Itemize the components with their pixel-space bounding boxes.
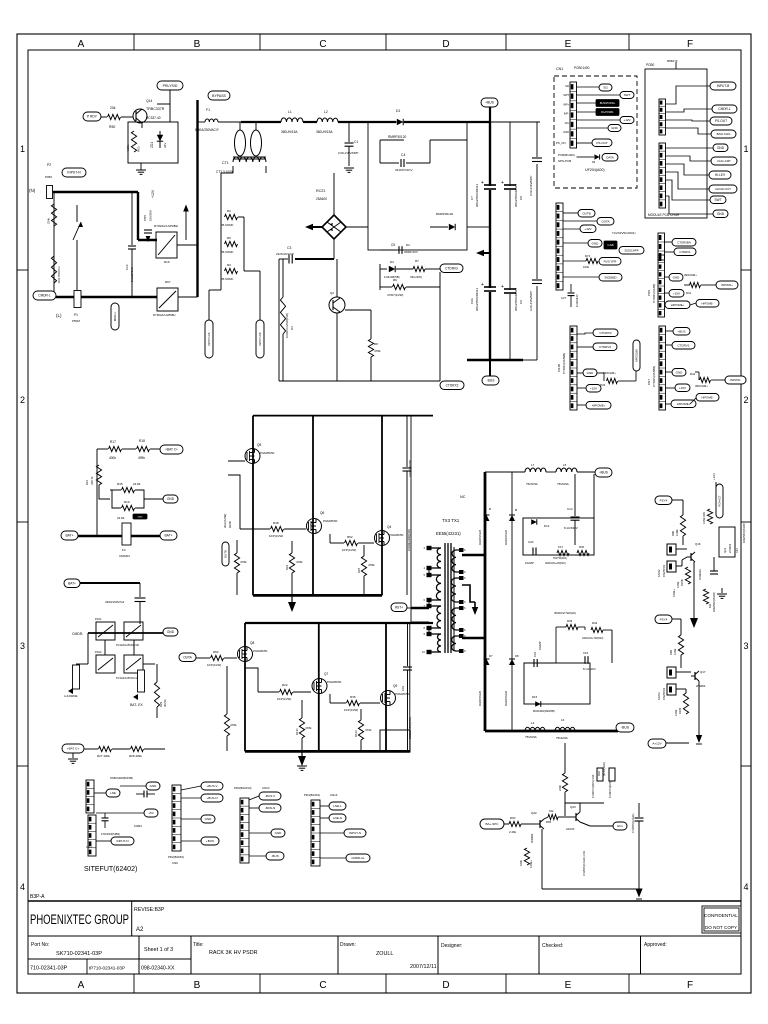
svg-text:2N3904A: 2N3904A xyxy=(698,569,702,580)
svg-text:NC: NC xyxy=(460,495,466,499)
diode D2 xyxy=(467,226,476,228)
svg-text:45.9OMh: 45.9OMh xyxy=(221,250,234,254)
svg-text:4.99k+: 4.99k+ xyxy=(672,589,676,597)
transformer core xyxy=(444,543,446,653)
svg-text:478k: 478k xyxy=(374,349,381,353)
node GND xyxy=(588,240,602,248)
svg-text:L4: L4 xyxy=(531,721,535,725)
svg-text:4: 4 xyxy=(20,882,25,892)
svg-text:102MP: 102MP xyxy=(538,641,542,650)
svg-text:2007/12/11: 2007/12/11 xyxy=(410,964,437,970)
node INPCT-CA vertical xyxy=(205,320,213,358)
svg-text:F3: F3 xyxy=(122,548,126,552)
svg-text:SPS-PCB: SPS-PCB xyxy=(558,159,571,163)
svg-text:B: B xyxy=(515,508,517,512)
resistor R93 xyxy=(707,509,712,524)
svg-text:DATA: DATA xyxy=(606,155,614,159)
svg-text:D8: D8 xyxy=(515,654,519,658)
svg-text:OUTB: OUTB xyxy=(224,550,228,558)
resistor R33 xyxy=(358,720,363,740)
wire tap thick upper xyxy=(462,554,485,557)
wire bus horizontal to relay xyxy=(138,239,157,241)
svg-text:1: 1 xyxy=(743,144,748,154)
svg-text:478k: 478k xyxy=(305,726,312,730)
node INPCT-CB vertical xyxy=(256,320,264,358)
svg-text:SK710-02341-03P: SK710-02341-03P xyxy=(56,951,102,957)
svg-text:Q2: Q2 xyxy=(330,291,334,295)
resistor R60 xyxy=(509,821,521,826)
node +15V xyxy=(669,290,684,298)
svg-text:+: + xyxy=(501,180,504,186)
node GND xyxy=(271,829,285,837)
transistor Q4 xyxy=(375,531,390,546)
svg-text:INPWN-: INPWN- xyxy=(730,378,741,382)
svg-text:A2: A2 xyxy=(136,927,144,933)
relay RY2 xyxy=(124,655,143,673)
relay RY67 xyxy=(157,288,178,311)
svg-text:GND: GND xyxy=(205,817,213,821)
resistor R3 xyxy=(225,268,238,273)
node GND xyxy=(201,815,215,823)
relay RY16 xyxy=(156,232,177,258)
svg-text:R50: R50 xyxy=(109,125,115,129)
svg-text:478k: 478k xyxy=(296,560,303,564)
wire box bridge upper xyxy=(253,415,433,417)
svg-text:R9: R9 xyxy=(393,278,397,282)
resistor R74 xyxy=(586,258,598,263)
wire bus xyxy=(404,121,490,123)
svg-text:100KOhm/5W(R1B): 100KOhm/5W(R1B) xyxy=(285,313,289,338)
node CTDRV3 xyxy=(593,343,617,351)
svg-text:BAT+: BAT+ xyxy=(164,534,172,538)
resistor R28 xyxy=(131,746,144,751)
svg-text:3021k: 3021k xyxy=(163,699,167,707)
svg-text:A+12V: A+12V xyxy=(652,742,662,746)
capacitor C32 xyxy=(102,817,109,819)
svg-text:BAT- EX: BAT- EX xyxy=(130,703,143,707)
svg-text:R3: R3 xyxy=(227,263,231,267)
svg-text:47U/50V(0.3x11): 47U/50V(0.3x11) xyxy=(631,813,635,833)
node PS-OUT xyxy=(592,139,612,147)
svg-text:6P/CE1B0: 6P/CE1B0 xyxy=(635,349,639,362)
svg-text:EE55(42231): EE55(42231) xyxy=(436,531,461,536)
svg-text:D3: D3 xyxy=(390,260,394,264)
svg-text:BUS/PCWR+: BUS/PCWR+ xyxy=(600,101,616,105)
relay RY1 xyxy=(96,655,115,673)
node -BUS b xyxy=(266,852,284,860)
capacitor C4 xyxy=(380,162,399,164)
node CMDR-L right xyxy=(712,105,737,113)
node CTDRV3 xyxy=(440,264,463,273)
capacitor C12 xyxy=(574,480,576,516)
svg-text:C20: C20 xyxy=(528,540,534,544)
svg-text:Q8: Q8 xyxy=(250,641,254,645)
svg-text:B: B xyxy=(489,507,491,511)
svg-text:+BAT C+: +BAT C+ xyxy=(165,448,178,452)
svg-text:0.01U/1KV/MPP: 0.01U/1KV/MPP xyxy=(338,151,358,155)
inductor L4 xyxy=(525,727,545,731)
fuse P2 xyxy=(47,186,53,199)
svg-text:478k: 478k xyxy=(368,563,375,567)
node SWT xyxy=(620,92,634,99)
fuse F3 xyxy=(122,523,131,545)
wire bus N xyxy=(53,191,138,193)
capacitor C2 xyxy=(532,157,542,159)
svg-text:CN8: CN8 xyxy=(647,290,651,296)
node BYPASS xyxy=(208,91,230,100)
node PRLYSID xyxy=(157,81,183,90)
ground arrow xyxy=(635,889,642,898)
svg-text:CMDR-L: CMDR-L xyxy=(38,294,51,298)
svg-text:CMDR-: CMDR- xyxy=(72,632,83,636)
node CTDRX3 xyxy=(593,329,618,337)
wire tap thick lower xyxy=(462,637,485,640)
wire bus bottom out xyxy=(485,730,618,733)
svg-text:LNE-N: LNE-N xyxy=(333,816,342,820)
svg-text:CN13: CN13 xyxy=(330,793,338,797)
svg-text:C1: C1 xyxy=(354,140,358,144)
svg-text:RST+: RST+ xyxy=(395,605,403,609)
svg-text:4.99k+: 4.99k+ xyxy=(529,860,533,868)
svg-text:P0A08K50: P0A08K50 xyxy=(260,451,275,455)
resistor R37 xyxy=(557,550,569,555)
svg-text:24.8k: 24.8k xyxy=(133,482,141,486)
svg-text:8.33U/43V: 8.33U/43V xyxy=(575,294,579,307)
svg-text:45.9OMh: 45.9OMh xyxy=(221,223,234,227)
svg-text:+BUS: +BUS xyxy=(485,101,495,105)
diode D15 xyxy=(535,701,541,707)
svg-text:(N): (N) xyxy=(29,188,36,193)
svg-text:R133: R133 xyxy=(354,730,358,737)
svg-text:4.99k: 4.99k xyxy=(673,648,677,655)
wire bus battery xyxy=(78,535,160,538)
svg-text:PD4(B1334): PD4(B1334) xyxy=(304,793,320,797)
svg-text:GND: GND xyxy=(717,146,725,150)
svg-text:8.1U/630V: 8.1U/630V xyxy=(564,526,578,530)
svg-text:3S25CHPP: 3S25CHPP xyxy=(624,248,638,252)
wire xyxy=(141,123,143,128)
node HIP/OME+ xyxy=(665,301,690,309)
svg-text:SSBU/2R(B015B): SSBU/2R(B015B) xyxy=(110,776,133,780)
svg-text:SI2: SI2 xyxy=(565,84,569,88)
node LNE-L xyxy=(329,802,346,810)
wire primary entry lower xyxy=(411,621,429,623)
resistor R9B xyxy=(678,635,683,655)
svg-text:D12: D12 xyxy=(544,524,550,528)
svg-text:RMRP30120: RMRP30120 xyxy=(436,212,454,216)
inductor L7 xyxy=(525,468,546,472)
connector CN4 strip xyxy=(556,203,563,290)
relay RG1 xyxy=(96,622,115,640)
svg-text:BAT+: BAT+ xyxy=(65,534,73,538)
resistor R99 xyxy=(680,515,685,536)
node +15V xyxy=(586,385,601,393)
connector CN1 strip xyxy=(570,82,577,148)
svg-text:R74: R74 xyxy=(585,254,591,258)
resistor R45 xyxy=(122,487,135,492)
node -BUS out xyxy=(616,723,634,732)
svg-text:Q23: Q23 xyxy=(570,805,576,809)
fuse P1 xyxy=(74,291,81,308)
svg-text:098-02340-XX: 098-02340-XX xyxy=(141,966,175,972)
resistor R54 xyxy=(562,773,567,792)
svg-text:CN3: CN3 xyxy=(86,845,92,849)
resistor R30v xyxy=(224,714,229,736)
connector CN8 strip xyxy=(658,255,665,317)
svg-text:CN10: CN10 xyxy=(262,786,270,790)
node BAT+ right xyxy=(160,531,177,540)
svg-text:222K/1KV/CP: 222K/1KV/CP xyxy=(276,252,294,256)
svg-text:3300/100V/G4: 3300/100V/G4 xyxy=(105,600,125,604)
svg-text:RACK 3K HV PSDR: RACK 3K HV PSDR xyxy=(209,950,258,956)
svg-text:INPCT-CB: INPCT-CB xyxy=(258,332,262,345)
ground xyxy=(72,753,74,758)
capacitor C36 xyxy=(710,570,718,572)
svg-text:R9B: R9B xyxy=(669,650,673,655)
svg-text:+BUS: +BUS xyxy=(599,471,609,475)
node BA+-SPC xyxy=(480,819,504,829)
svg-text:CHG-CRT: CHG-CRT xyxy=(717,159,731,163)
wire box rectifier xyxy=(368,122,467,250)
svg-text:P101: P101 xyxy=(95,617,102,621)
svg-text:R60: R60 xyxy=(510,816,516,820)
resistor R19B xyxy=(685,567,690,584)
svg-text:CT1: CT1 xyxy=(222,161,229,165)
capacitor C1 xyxy=(348,122,350,142)
svg-text:QZ1: QZ1 xyxy=(723,547,727,553)
ground arrow xyxy=(301,751,303,757)
svg-text:R45: R45 xyxy=(117,482,123,486)
resistor R29 xyxy=(154,682,159,707)
svg-text:25A600: 25A600 xyxy=(316,197,327,201)
svg-text:1N4937S(024): 1N4937S(024) xyxy=(608,781,612,798)
svg-text:F: F xyxy=(687,980,693,991)
wire bus xyxy=(338,121,396,123)
wire box bridge lower xyxy=(245,622,433,624)
svg-text:CTDRV(61B8B): CTDRV(61B8B) xyxy=(652,366,656,387)
svg-text:PCB(B1400): PCB(B1400) xyxy=(558,153,575,157)
svg-text:INP-: INP- xyxy=(564,112,569,116)
svg-text:300K04//7W(022): 300K04//7W(022) xyxy=(554,611,576,615)
dashed box CN1 xyxy=(554,76,637,188)
svg-text:+15V: +15V xyxy=(679,386,686,390)
svg-text:478k: 478k xyxy=(240,560,247,564)
node 3S25CHPP xyxy=(619,247,644,255)
node DATA xyxy=(602,154,618,162)
svg-text:INPUT-N: INPUT-N xyxy=(349,831,361,835)
capacitor C30 xyxy=(135,597,146,599)
svg-text:PSY4: PSY4 xyxy=(660,498,668,502)
resistor R19 xyxy=(122,505,135,510)
svg-text:R16: R16 xyxy=(164,260,170,264)
svg-text:F1: F1 xyxy=(206,108,210,112)
node GND xyxy=(146,782,160,790)
wire xyxy=(346,226,368,228)
capacitor C9A xyxy=(484,286,496,288)
node CTDRV1 xyxy=(674,248,696,256)
svg-text:SWT: SWT xyxy=(624,93,631,97)
svg-text:680U/450V/R8313: 680U/450V/R8313 xyxy=(514,184,518,207)
svg-text:C15: C15 xyxy=(583,651,589,655)
svg-text:PD2(B1663): PD2(B1663) xyxy=(168,855,184,859)
node RI PCWR dark xyxy=(596,109,619,116)
svg-text:478k: 478k xyxy=(230,723,237,727)
inductor L6 xyxy=(555,727,575,731)
svg-text:4.99k: 4.99k xyxy=(676,581,680,588)
diode D12 xyxy=(531,519,537,525)
node +BUS xyxy=(481,98,498,107)
node +5V xyxy=(144,809,158,817)
svg-text:CN25P03: CN25P03 xyxy=(662,687,666,700)
svg-text:+15V: +15V xyxy=(590,386,597,390)
svg-text:CONFIDENTIAL: CONFIDENTIAL xyxy=(704,913,738,918)
node RUS VFR xyxy=(599,258,621,266)
svg-text:SWT: SWT xyxy=(714,198,721,202)
svg-text:CN9: CN9 xyxy=(172,861,178,865)
svg-text:P2: P2 xyxy=(47,163,51,167)
svg-text:-BUS-V: -BUS-V xyxy=(265,794,275,798)
wire xyxy=(541,829,543,889)
node CHGR OUT xyxy=(709,185,737,193)
svg-text:CTDRX2: CTDRX2 xyxy=(446,383,459,387)
svg-text:-BUS: -BUS xyxy=(271,854,278,858)
wire xyxy=(143,663,155,665)
svg-text:CMDR4: CMDR4 xyxy=(119,554,130,558)
svg-text:FAN2: FAN2 xyxy=(657,569,661,577)
svg-text:710-02341-03P: 710-02341-03P xyxy=(30,966,68,972)
svg-text:100k: 100k xyxy=(519,860,523,866)
svg-text:+12V: +12V xyxy=(712,473,716,480)
svg-text:GND: GND xyxy=(563,130,569,134)
wire xyxy=(220,173,222,271)
svg-text:RHRP15120: RHRP15120 xyxy=(504,529,508,545)
diode D4 xyxy=(588,156,594,158)
svg-text:R67: R67 xyxy=(165,280,171,284)
grid row dividers left xyxy=(17,269,28,271)
svg-text:MDR-L: MDR-L xyxy=(113,311,117,321)
svg-text:220k: 220k xyxy=(558,785,562,791)
svg-text:E: E xyxy=(565,39,572,50)
svg-text:+: + xyxy=(501,284,504,290)
svg-text:K7D/20N(P//BR): K7D/20N(P//BR) xyxy=(101,832,120,836)
transistor Q22 xyxy=(539,820,541,828)
connector CN5 strip xyxy=(658,233,665,260)
svg-text:R10B: R10B xyxy=(228,521,232,528)
svg-text:GND: GND xyxy=(150,784,158,788)
svg-text:PS-OUT: PS-OUT xyxy=(596,141,608,145)
svg-text:3300F/16V: 3300F/16V xyxy=(404,250,418,254)
wire bus L xyxy=(56,296,157,299)
svg-text:PCB0: PCB0 xyxy=(646,63,655,67)
connector CN3 strip upper xyxy=(86,780,94,813)
svg-text:R16: R16 xyxy=(85,479,89,485)
svg-text:CTDRV3: CTDRV3 xyxy=(445,266,458,270)
svg-text:47U/50V(0.3x11) C33: 47U/50V(0.3x11) C33 xyxy=(582,851,586,876)
svg-text:P102: P102 xyxy=(95,650,102,654)
node GND xyxy=(163,495,178,503)
diode D6 xyxy=(509,515,515,521)
wire xyxy=(97,448,108,450)
node 6P/CE1B0 vertical xyxy=(633,340,640,371)
node GND xyxy=(583,369,597,377)
wire xyxy=(121,116,133,118)
svg-text:R19: R19 xyxy=(124,500,130,504)
svg-text:R43: R43 xyxy=(600,383,606,387)
svg-text:tP710-02341-03P: tP710-02341-03P xyxy=(89,966,125,971)
wire output top xyxy=(485,471,525,473)
fuse F4 xyxy=(138,670,145,692)
svg-text:D16: D16 xyxy=(597,771,601,776)
node HIPOME- xyxy=(696,300,719,308)
svg-text:D4: D4 xyxy=(592,160,596,164)
resistor R8 xyxy=(368,339,373,357)
node GND xyxy=(163,628,178,636)
node GND xyxy=(608,125,621,132)
svg-text:+: + xyxy=(481,282,484,288)
svg-text:C9A: C9A xyxy=(470,298,474,304)
node BAD-CHG xyxy=(711,130,736,138)
node +12V xyxy=(580,225,596,233)
svg-text:HI-LEV: HI-LEV xyxy=(715,173,726,177)
svg-text:GND: GND xyxy=(676,370,684,374)
svg-text:OUTA: OUTA xyxy=(601,219,609,223)
wire xyxy=(218,121,241,123)
resistor R2 xyxy=(225,214,238,219)
svg-text:PC10A/125VDC/15A: PC10A/125VDC/15A xyxy=(116,676,140,680)
svg-text:L6: L6 xyxy=(561,718,565,722)
svg-text:20k: 20k xyxy=(110,106,116,110)
wire arrow left xyxy=(305,224,313,230)
wire xyxy=(177,244,197,246)
svg-text:B3P-A: B3P-A xyxy=(30,894,45,900)
svg-text:A: A xyxy=(78,980,85,991)
svg-text:-BUS-N: -BUS-N xyxy=(265,806,275,810)
svg-text:Q16: Q16 xyxy=(695,542,701,546)
svg-text:1N4148(5B): 1N4148(5B) xyxy=(384,275,400,279)
svg-text:RY822A/1APDBH: RY822A/1APDBH xyxy=(153,313,175,317)
resistor R23 xyxy=(289,553,294,573)
svg-text:348.7k: 348.7k xyxy=(90,476,94,485)
svg-text:470k: 470k xyxy=(365,728,372,732)
svg-text:Q17: Q17 xyxy=(700,670,706,674)
node INPUT-N c xyxy=(344,829,366,837)
svg-text:BA+-SPC: BA+-SPC xyxy=(486,822,500,826)
svg-text:INPWN+: INPWN+ xyxy=(721,283,733,287)
svg-text:RC337-40: RC337-40 xyxy=(146,116,161,120)
svg-text:CHGR OUT: CHGR OUT xyxy=(715,187,731,191)
wire box around Q14 stage xyxy=(128,122,178,163)
svg-text:Q14: Q14 xyxy=(146,99,153,103)
node +BUS xyxy=(673,328,690,336)
svg-text:CTDRV1: CTDRV1 xyxy=(679,250,691,254)
node HIP/OME+ xyxy=(671,400,696,408)
svg-text:R42: R42 xyxy=(592,621,598,625)
svg-text:2N3904: 2N3904 xyxy=(696,684,706,688)
svg-text:3N25B5D: 3N25B5D xyxy=(604,275,616,279)
transistor Q7 xyxy=(312,679,327,694)
node CTDRXBN xyxy=(672,239,696,247)
node -BUS xyxy=(489,360,491,376)
node GN+ xyxy=(613,822,627,830)
svg-text:CN5: CN5 xyxy=(143,215,147,221)
node INPUT-B xyxy=(710,82,736,90)
svg-text:1N4007S(SEN) D13: 1N4007S(SEN) D13 xyxy=(591,774,595,798)
node GND xyxy=(672,369,686,377)
wire bus secondary vertical xyxy=(484,472,487,731)
ground arrow xyxy=(696,735,702,743)
svg-text:75UN/9A: 75UN/9A xyxy=(526,482,538,486)
resistor R24 upper xyxy=(51,204,56,226)
